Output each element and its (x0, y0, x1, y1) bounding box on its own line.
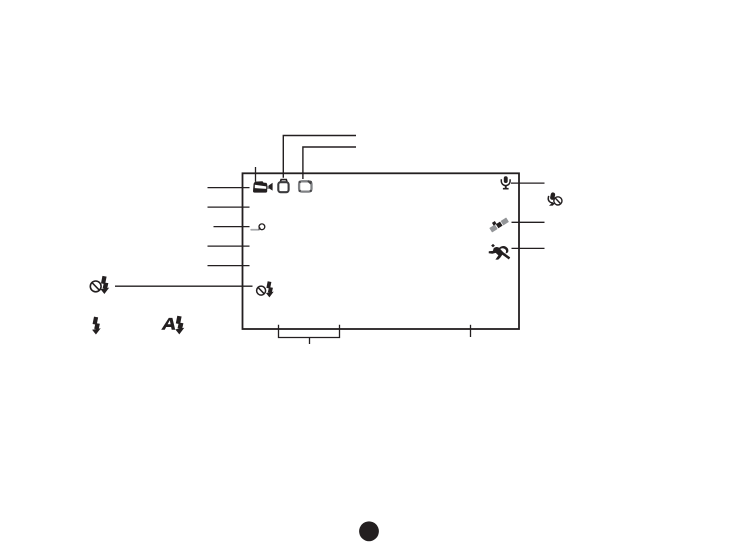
icon: battery (278, 180, 288, 193)
icon: image frame (still size) (299, 181, 312, 192)
LCD frame (243, 173, 520, 329)
icon: flash off (inside screen) (257, 281, 274, 297)
icon: auto flash bolt (175, 316, 184, 335)
callout line left 2 (208, 206, 250, 208)
callout line right 3 (runner) (512, 247, 545, 249)
icon: video camera (movie mode) (253, 181, 273, 192)
callout line left 5 (208, 265, 250, 267)
icon: auto flash label A (161, 318, 175, 330)
callout line left 1 (208, 187, 250, 189)
callout line left 3 (214, 226, 250, 228)
icon: cable release / remote (250, 224, 264, 231)
icon: microphone off (outside, right) (548, 192, 562, 206)
bottom tick (470, 325, 472, 337)
icon: satellite (GPS) (488, 215, 509, 232)
bottom bracket (279, 325, 340, 344)
icon: flash on (bolt) (92, 317, 101, 335)
icon: flash off (outside, left) (90, 276, 109, 294)
icon: microphone (inside screen) (501, 176, 510, 189)
callout line top B (image frame) (303, 147, 356, 179)
bullet dot (359, 521, 379, 541)
icon: runner (sports mode) (489, 244, 511, 260)
callout line left 6 (long, to flash-off) (115, 285, 253, 287)
callout line left 4 (208, 245, 250, 247)
callout line right 1 (microphone) (511, 182, 545, 184)
callout tick top (video camera) (255, 167, 257, 182)
callout line right 2 (satellite) (512, 221, 545, 223)
callout line top A (battery) (283, 136, 356, 178)
